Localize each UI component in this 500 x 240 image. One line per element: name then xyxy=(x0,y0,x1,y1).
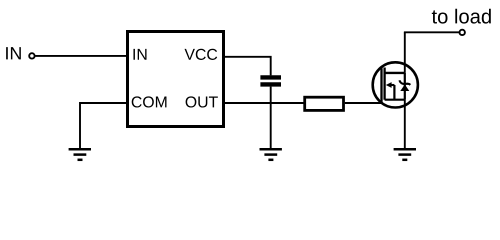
resistor R1 xyxy=(305,97,344,110)
wire C1 to ground xyxy=(270,87,272,149)
Q1 drain connection xyxy=(385,72,405,74)
terminal to load xyxy=(460,30,465,35)
pin COM xyxy=(132,96,167,107)
pin IN xyxy=(133,49,146,60)
Q1 body diode cathode bar xyxy=(399,80,410,85)
wire IN to U1 xyxy=(35,55,127,57)
capacitor C1 xyxy=(260,77,281,84)
Q1 channel bar xyxy=(383,68,385,100)
pin OUT xyxy=(186,96,218,107)
terminal IN xyxy=(29,53,34,58)
Q1 body arrow xyxy=(386,82,392,88)
wire COM to ground xyxy=(80,103,126,148)
wire R1 to Q1 gate xyxy=(345,102,383,104)
ground middle xyxy=(260,149,282,160)
node IN label xyxy=(6,47,21,59)
Q1 body diode anode xyxy=(400,84,409,91)
IC U1 driver box xyxy=(128,32,224,127)
wire drain vertical xyxy=(404,32,406,73)
wire OUT to R1 xyxy=(225,102,304,104)
Q1 source connection xyxy=(385,99,405,101)
node to load label xyxy=(432,9,491,24)
ground left xyxy=(69,149,91,160)
Q1 gate bar xyxy=(380,68,382,103)
wire VCC to C1 xyxy=(225,57,271,76)
wire diode branch xyxy=(404,73,406,100)
wire to load xyxy=(404,31,460,33)
ground right xyxy=(394,149,416,160)
wire source to ground xyxy=(404,100,406,149)
pin VCC xyxy=(185,49,218,60)
transistor Q1 body circle xyxy=(373,62,418,107)
